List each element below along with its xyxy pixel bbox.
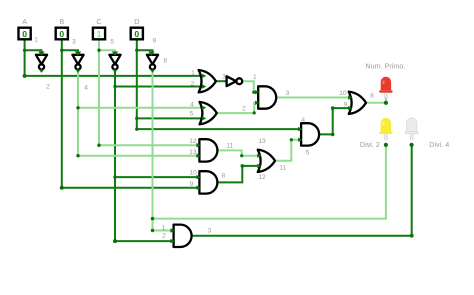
arrow AND1 in1	[255, 90, 259, 94]
OR gate OR1	[199, 70, 216, 92]
wire B branch to NOT2 input	[62, 50, 78, 53]
input D box	[131, 28, 143, 40]
AND gate AND3	[199, 139, 217, 161]
AND gate AND5	[174, 225, 192, 247]
wire NOT2 output vertical (B')	[77, 70, 79, 156]
svg-text:2: 2	[242, 105, 246, 112]
svg-text:0: 0	[59, 29, 64, 39]
wire OR1 output to NOT5	[216, 80, 227, 82]
junction B-NOT2	[60, 49, 63, 52]
arrow NOT3 input	[112, 52, 118, 56]
NOT gate U1 (A)	[36, 55, 47, 70]
arrow OR3 in13	[257, 154, 261, 158]
arrow NOT2 output stub	[75, 69, 80, 73]
wire B' to OR2 input 4	[78, 107, 203, 109]
corner B' to AND3	[76, 154, 79, 157]
arrow AND1 in2	[255, 101, 259, 105]
svg-text:D: D	[134, 17, 139, 26]
svg-text:12: 12	[189, 138, 197, 145]
wire C' to AND5 input 2	[115, 240, 173, 242]
wire AND3 output elbow to OR3 input 13	[217, 150, 257, 155]
svg-text:3: 3	[222, 73, 226, 80]
NOT gate U5 (after OR1)	[227, 76, 243, 86]
wire C branch to NOT3 input	[99, 50, 115, 53]
wire input B vertical	[61, 39, 63, 188]
wire NOT3 output vertical (C')	[114, 70, 116, 242]
arrow NOT2 input	[75, 52, 81, 56]
wire input A vertical	[24, 39, 26, 76]
node LED2 pin	[384, 143, 388, 147]
corner AND4 elbow	[241, 164, 245, 168]
junction D' LED2	[151, 217, 154, 220]
wire C' to AND4 input 10	[115, 176, 199, 178]
corner A bus	[23, 74, 27, 78]
OR gate OR3	[258, 150, 275, 172]
junction C' bus2	[113, 85, 116, 88]
wire OR4 output to LED1 (Num Primo)	[366, 98, 386, 103]
input C box	[93, 28, 105, 40]
arrow AND4 in10	[196, 175, 200, 179]
arrow OR4 in10	[348, 95, 352, 99]
LED2 yellow (Divi 2, lit)	[379, 118, 392, 140]
wire input C vertical	[98, 39, 100, 145]
svg-text:9: 9	[344, 101, 348, 108]
junction C-NOT3	[97, 49, 100, 52]
svg-text:3: 3	[208, 228, 212, 235]
wire D to OR2 input 5	[137, 117, 203, 119]
arrow NOT4 input	[148, 52, 154, 56]
svg-text:8: 8	[370, 92, 374, 99]
arrow OR1 in1	[202, 74, 206, 78]
wire C' to OR1 input 2	[115, 86, 203, 88]
wire D to AND2 input 4	[137, 128, 301, 130]
wire NOT4 output vertical (D')	[152, 70, 154, 231]
svg-text:C: C	[96, 17, 101, 26]
wire OR2 output elbow to AND1 input 2	[217, 103, 258, 113]
svg-text:4: 4	[301, 117, 305, 124]
corner LED3 wire	[410, 234, 414, 238]
svg-text:3: 3	[286, 90, 290, 97]
wire input D vertical	[136, 39, 138, 129]
svg-text:8: 8	[163, 57, 167, 64]
svg-text:0: 0	[22, 29, 27, 39]
arrow NOT1 output stub	[39, 69, 44, 73]
wire B' to AND3 input 13	[78, 155, 199, 157]
wire A branch to NOT1 input	[25, 50, 42, 53]
NOT gate U4 (D)	[147, 55, 158, 70]
svg-text:Divi. 4: Divi. 4	[429, 140, 449, 149]
junction B' OR2	[76, 106, 79, 109]
svg-text:1: 1	[162, 225, 166, 232]
svg-text:4: 4	[84, 84, 88, 91]
wire OR3 output elbow to AND2 input 5	[275, 140, 301, 161]
wire NOT5 output elbow to AND1 input 1	[242, 81, 257, 92]
input A box	[19, 28, 31, 40]
corner NOT5 elbow	[252, 91, 255, 94]
svg-text:9: 9	[190, 181, 194, 188]
arrow AND3 in12	[196, 143, 200, 147]
arrow NOT1 input	[38, 52, 44, 56]
arrow AND3 in13	[196, 154, 200, 158]
AND gate AND2	[301, 123, 319, 145]
svg-text:Num. Primo.: Num. Primo.	[365, 61, 405, 70]
svg-text:13: 13	[189, 149, 197, 156]
svg-text:13: 13	[258, 138, 266, 145]
corner OR3 elbow	[290, 138, 293, 141]
svg-text:5: 5	[306, 149, 310, 156]
OR gate OR2	[200, 102, 217, 124]
svg-text:8: 8	[222, 172, 226, 179]
LED3 white (Divi 4, off)	[405, 118, 418, 140]
corner C to AND3	[97, 144, 100, 147]
corner C' AND5	[113, 239, 117, 243]
svg-text:2: 2	[191, 80, 195, 87]
corner OR2 elbow	[253, 111, 256, 114]
svg-text:1: 1	[191, 70, 195, 77]
svg-text:11: 11	[279, 165, 286, 172]
arrow NOT4 output stub	[150, 69, 155, 73]
svg-text:0: 0	[134, 29, 139, 39]
wire bus A to OR1 input 1	[25, 75, 203, 77]
svg-text:5: 5	[110, 38, 114, 45]
junction A-NOT1	[23, 49, 26, 52]
svg-text:A: A	[22, 17, 27, 26]
wire D' to AND5 input 1	[153, 230, 174, 232]
svg-text:1: 1	[253, 74, 257, 81]
svg-text:2: 2	[46, 84, 50, 91]
arrow AND4 in9	[196, 186, 200, 190]
corner B to AND4	[60, 186, 64, 190]
node LED1 pin	[384, 101, 388, 105]
arrow OR2 in4	[202, 106, 206, 110]
svg-text:B: B	[59, 17, 64, 26]
svg-text:9: 9	[152, 38, 156, 45]
svg-text:3: 3	[72, 38, 76, 45]
arrow OR4 in9	[348, 106, 352, 110]
svg-text:5: 5	[190, 111, 194, 118]
arrow AND5 in2	[170, 239, 174, 243]
arrow AND5 in1	[170, 228, 174, 232]
corner AND3 elbow	[240, 154, 243, 157]
input B box	[56, 28, 68, 40]
svg-text:1: 1	[34, 37, 38, 44]
arrow OR2 in5	[202, 116, 206, 120]
wire C to AND3 input 12	[99, 144, 199, 146]
corner AND2 elbow high	[331, 106, 335, 110]
wire AND2 output elbow to OR4 input 9	[317, 108, 348, 134]
NOT gate U3 (C)	[109, 55, 120, 70]
svg-text:Divi. 2: Divi. 2	[360, 140, 380, 149]
AND gate AND4	[199, 171, 217, 193]
corner D' AND5	[151, 229, 154, 232]
wire D' to LED2 (Divi 2)	[153, 145, 386, 219]
wire AND4 output elbow to OR3 input 12	[216, 166, 257, 183]
NOT gate U2 (B)	[72, 55, 83, 70]
arrow AND2 in4	[298, 127, 302, 131]
wire AND5 output to LED3 (Divi 4)	[191, 145, 412, 236]
wire B to AND4 input 9	[62, 187, 199, 189]
wire D branch to NOT4 input	[137, 50, 153, 53]
junction D OR2	[135, 117, 138, 120]
junction C' AND4	[113, 175, 116, 178]
corner D to AND2	[135, 127, 138, 130]
svg-text:1: 1	[97, 29, 102, 39]
AND gate AND1	[258, 86, 276, 108]
LED1 red (Num Primo, lit)	[379, 77, 392, 99]
arrow OR3 in12	[257, 164, 261, 168]
svg-text:2: 2	[162, 232, 166, 239]
svg-text:10: 10	[339, 90, 347, 97]
arrow NOT3 output stub	[112, 69, 117, 73]
OR gate OR4	[349, 92, 366, 114]
svg-text:4: 4	[190, 102, 194, 109]
arrow OR1 in2	[202, 84, 206, 88]
corner AND2 elbow low	[331, 133, 335, 137]
svg-text:12: 12	[258, 174, 266, 181]
arrow AND2 in5	[298, 138, 302, 142]
junction D-NOT4	[135, 49, 138, 52]
svg-text:11: 11	[226, 142, 233, 149]
svg-text:10: 10	[190, 169, 198, 176]
wire AND1 output to OR4 input 10	[277, 97, 349, 99]
node LED3 pin	[410, 143, 414, 147]
